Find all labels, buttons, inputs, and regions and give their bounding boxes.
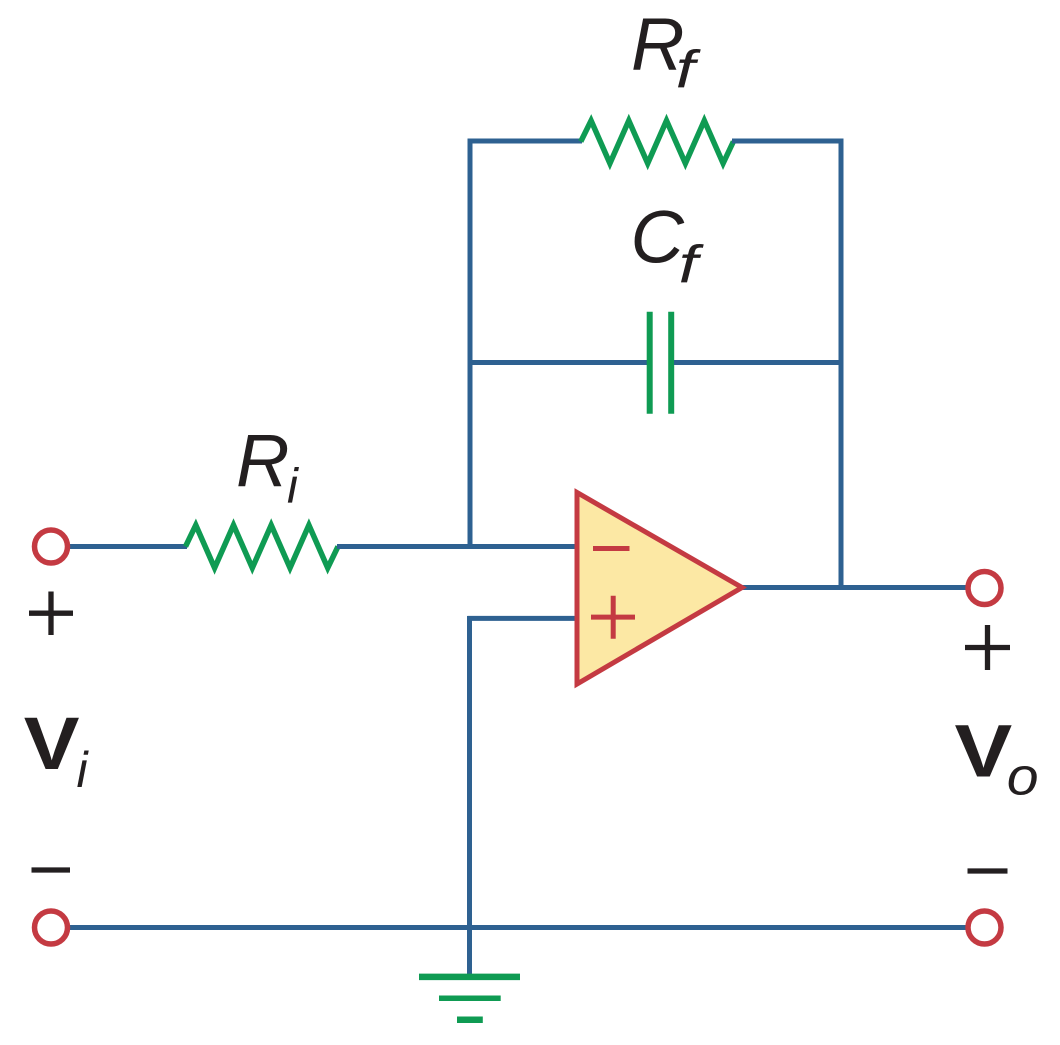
- wire: capacitor branch left: [468, 360, 648, 365]
- label Vo: [955, 710, 1039, 806]
- wire: feedback left vertical: [468, 139, 473, 550]
- svg-text:V: V: [955, 710, 1013, 793]
- svg-text:i: i: [287, 460, 299, 514]
- op-amp U1 body: [577, 493, 742, 685]
- wire: feedback top right segment: [732, 139, 844, 144]
- polarity plus (input): [29, 592, 73, 636]
- wire: bottom rail: [68, 925, 966, 930]
- wire: Ri to op-amp inverting input: [337, 544, 578, 549]
- capacitor Cf: [650, 312, 672, 414]
- ground symbol: [419, 977, 520, 1020]
- terminal Vo minus: [968, 911, 1001, 944]
- label Rf: [631, 2, 701, 99]
- svg-text:V: V: [24, 702, 80, 784]
- polarity minus (output): [968, 868, 1008, 873]
- wire: ground vertical: [467, 616, 472, 975]
- op-amp noninverting input marker (plus): [591, 596, 635, 639]
- terminal Vo plus: [968, 572, 1001, 605]
- label Ri: [236, 419, 299, 514]
- polarity plus (output): [965, 625, 1010, 670]
- label Cf: [631, 196, 705, 295]
- terminal Vi plus: [35, 530, 68, 563]
- wire: feedback right vertical: [839, 139, 844, 591]
- svg-text:R: R: [236, 419, 289, 502]
- resistor Rf: [581, 121, 734, 164]
- svg-text:i: i: [77, 742, 90, 798]
- svg-text:o: o: [1007, 746, 1039, 806]
- terminal Vi minus: [35, 911, 68, 944]
- svg-text:C: C: [631, 196, 685, 279]
- resistor Ri: [186, 525, 339, 568]
- wire: noninverting input: [468, 616, 579, 621]
- op-amp inverting input marker (minus): [593, 546, 630, 551]
- wire: capacitor branch right: [674, 360, 844, 365]
- wire: feedback top left segment: [468, 139, 583, 144]
- wire: output: [742, 585, 966, 590]
- wire: input from Vi+ terminal to Ri: [68, 544, 187, 549]
- polarity minus (input): [32, 867, 71, 872]
- label Vi: [24, 702, 90, 798]
